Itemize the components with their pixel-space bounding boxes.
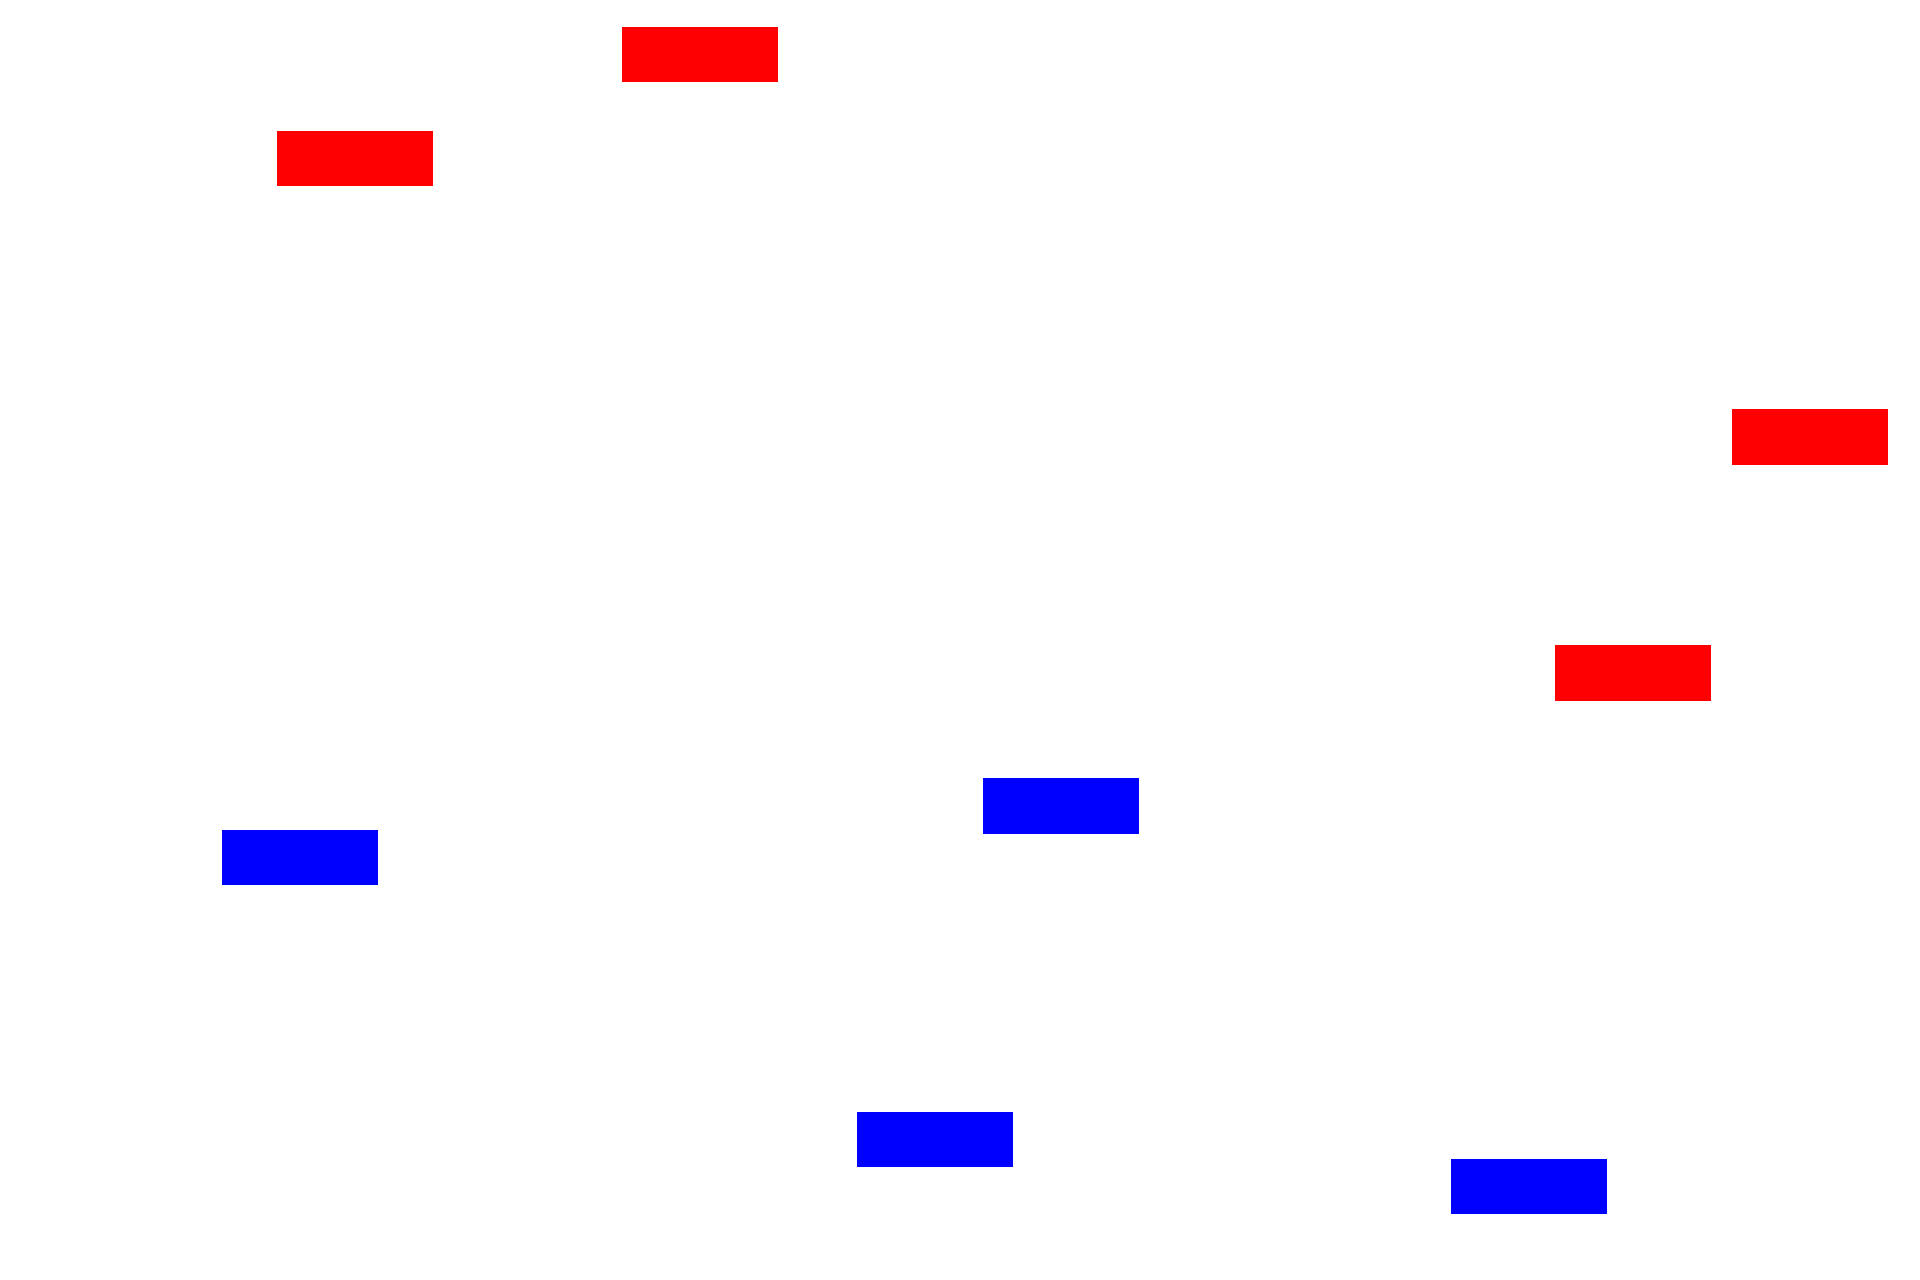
red rectangle 3 (right edge) <box>1732 409 1888 465</box>
red rectangle 2 (upper left) <box>277 131 433 186</box>
blue rectangle 6 (mid left) <box>222 830 378 885</box>
red rectangle 4 (mid right) <box>1555 645 1711 701</box>
blue rectangle 7 (lower center) <box>857 1112 1013 1167</box>
blue rectangle 8 (lower right) <box>1451 1159 1607 1214</box>
blue rectangle 5 (center) <box>983 778 1139 834</box>
red rectangle 1 (top center) <box>622 27 778 82</box>
